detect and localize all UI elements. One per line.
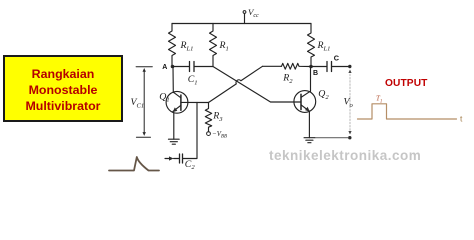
- capacitor C1: [190, 62, 195, 72]
- svg-text:T1: T1: [376, 95, 382, 105]
- transistor Q2: [294, 91, 316, 113]
- svg-text:R1: R1: [219, 40, 229, 52]
- svg-text:Q2: Q2: [318, 89, 329, 101]
- wire A to C1: [174, 66, 189, 68]
- ground (Q1): [169, 139, 180, 144]
- wire C1 to R1 bottom: [195, 66, 214, 68]
- VC1 measure arrow: [136, 67, 152, 138]
- wire C to output terminal: [332, 66, 349, 68]
- wire Q1 emitter down: [173, 113, 175, 140]
- wire R2 left diagonal to Q1 base (with hop): [209, 66, 263, 102]
- svg-text:A: A: [162, 64, 167, 71]
- svg-text:t: t: [460, 114, 463, 124]
- svg-text:RL1: RL1: [180, 40, 194, 52]
- Vo measure line: [348, 70, 351, 135]
- svg-text:C1: C1: [188, 74, 198, 86]
- resistor R2: [282, 63, 312, 69]
- trigger input arrow: [165, 156, 179, 160]
- svg-text:C2: C2: [185, 159, 196, 171]
- wire A to Q1 collector: [172, 67, 174, 93]
- wire Vcc rail: [172, 23, 311, 25]
- capacitor C: [327, 62, 332, 72]
- Vcc terminal: [243, 11, 246, 24]
- OUTPUT label: [385, 78, 427, 89]
- wire B to C: [311, 66, 327, 68]
- resistor RL1 (right): [308, 24, 315, 67]
- svg-text:C: C: [334, 54, 340, 63]
- wire Q1 base: [181, 101, 209, 103]
- svg-text:Q1: Q1: [159, 91, 169, 103]
- wire C2 riser: [183, 103, 197, 159]
- ground (Q2): [304, 138, 315, 143]
- resistor R1: [210, 24, 217, 67]
- output terminal top: [348, 65, 351, 68]
- resistor R3: [205, 103, 211, 132]
- transistor Q1: [166, 91, 188, 113]
- wire diagonal R1 to Q2 base: [213, 67, 301, 103]
- svg-text:B: B: [313, 70, 318, 77]
- output terminal bottom: [348, 136, 351, 139]
- svg-text:RL1: RL1: [317, 40, 331, 52]
- watermark: [269, 148, 439, 163]
- svg-text:R3: R3: [212, 111, 223, 123]
- node B: [309, 65, 313, 69]
- svg-text:VC1: VC1: [131, 97, 145, 109]
- output pulse waveform: [358, 104, 457, 119]
- -VBB terminal: [207, 132, 211, 136]
- resistor RL1 (left): [169, 24, 176, 67]
- trigger pulse waveform: [109, 157, 159, 171]
- wire Q2 emitter down: [308, 112, 310, 138]
- wire ground to bottom terminal: [315, 137, 348, 139]
- svg-text:Vcc: Vcc: [248, 7, 259, 19]
- svg-text:−VBB: −VBB: [212, 130, 227, 140]
- capacitor C2: [180, 154, 183, 163]
- wire B to Q2 collector: [310, 67, 312, 92]
- svg-text:Vo: Vo: [344, 97, 354, 109]
- svg-text:R2: R2: [282, 72, 293, 84]
- title box: [3, 55, 123, 122]
- wire R2 left horizontal: [263, 65, 282, 67]
- node A: [171, 65, 175, 69]
